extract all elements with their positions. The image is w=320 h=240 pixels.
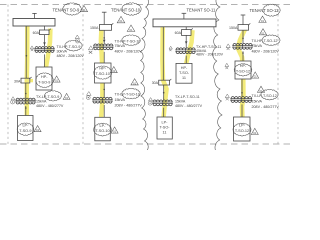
- svg-text:HP-: HP-: [181, 66, 188, 70]
- svg-text:150A: 150A: [229, 26, 238, 30]
- svg-text:TENANT SO-10: TENANT SO-10: [111, 7, 141, 12]
- svg-text:TX-LP-T-SO-12: TX-LP-T-SO-12: [252, 94, 277, 98]
- svg-text:T-SO-9: T-SO-9: [38, 81, 50, 85]
- svg-text:480V - 480/277V: 480V - 480/277V: [175, 104, 203, 108]
- svg-text:11: 11: [182, 76, 186, 80]
- svg-text:01: 01: [259, 89, 263, 93]
- svg-text:01: 01: [36, 128, 40, 132]
- svg-text:01: 01: [129, 28, 133, 32]
- svg-text:15kVA: 15kVA: [252, 99, 263, 103]
- svg-text:480V - 480/277V: 480V - 480/277V: [36, 104, 64, 108]
- svg-text:01: 01: [261, 31, 265, 35]
- svg-text:01: 01: [82, 8, 86, 12]
- svg-text:30kVA: 30kVA: [57, 49, 68, 53]
- svg-text:480V - 208/120V: 480V - 208/120V: [196, 53, 224, 57]
- svg-text:T-SO-12: T-SO-12: [236, 69, 250, 73]
- svg-text:01: 01: [65, 96, 69, 100]
- svg-text:480V - 208/120V: 480V - 208/120V: [57, 54, 85, 58]
- svg-text:TENANT SO-12: TENANT SO-12: [250, 8, 280, 13]
- svg-text:15kVA: 15kVA: [175, 100, 186, 104]
- svg-text:TENANT SO-11: TENANT SO-11: [187, 7, 216, 12]
- svg-text:01: 01: [55, 79, 59, 83]
- svg-text:30A: 30A: [14, 80, 21, 84]
- svg-text:LP-: LP-: [162, 121, 169, 125]
- svg-text:30A: 30A: [152, 81, 159, 85]
- svg-text:01: 01: [133, 81, 137, 85]
- svg-text:60A: 60A: [175, 31, 182, 35]
- svg-text:HP-: HP-: [41, 75, 48, 79]
- svg-text:T-SO-9: T-SO-9: [19, 129, 31, 133]
- svg-text:TX-LP-T-SO-11: TX-LP-T-SO-11: [175, 95, 200, 99]
- svg-text:01: 01: [253, 131, 257, 135]
- svg-text:TX-HP-T-SO-10: TX-HP-T-SO-10: [115, 39, 141, 43]
- svg-text:TX-HP-T-SO-12: TX-HP-T-SO-12: [252, 39, 278, 43]
- svg-text:T-SO-: T-SO-: [179, 71, 190, 75]
- svg-text:01: 01: [261, 19, 265, 23]
- svg-text:01: 01: [119, 19, 123, 23]
- svg-text:208V - 480/277V: 208V - 480/277V: [115, 103, 143, 107]
- svg-text:TENANT SO-9: TENANT SO-9: [53, 7, 81, 12]
- svg-text:480V - 208/120V: 480V - 208/120V: [115, 50, 143, 54]
- svg-text:75kVA: 75kVA: [115, 44, 126, 48]
- svg-text:01: 01: [254, 75, 258, 79]
- svg-text:TX-LP-T-SO-9: TX-LP-T-SO-9: [36, 95, 59, 99]
- svg-text:01: 01: [112, 69, 116, 73]
- svg-text:480V - 208/120V: 480V - 208/120V: [252, 49, 280, 53]
- svg-text:15kVA: 15kVA: [36, 100, 47, 104]
- svg-text:150A: 150A: [90, 26, 99, 30]
- svg-text:T-SO-: T-SO-: [159, 126, 170, 130]
- svg-text:TX-LP-T-SO-10: TX-LP-T-SO-10: [115, 93, 140, 97]
- svg-text:01: 01: [113, 130, 117, 134]
- svg-text:15kVA: 15kVA: [115, 98, 126, 102]
- svg-text:T-SO-10: T-SO-10: [96, 72, 110, 76]
- svg-text:11: 11: [163, 131, 167, 135]
- svg-text:T-SO-10: T-SO-10: [95, 129, 109, 133]
- svg-text:208V - 480/277V: 208V - 480/277V: [252, 105, 280, 109]
- svg-text:TX-HP-T-SO-9: TX-HP-T-SO-9: [57, 45, 81, 49]
- svg-text:T-SO-12: T-SO-12: [235, 129, 249, 133]
- svg-text:75kVA: 75kVA: [252, 44, 263, 48]
- svg-text:60A: 60A: [33, 31, 40, 35]
